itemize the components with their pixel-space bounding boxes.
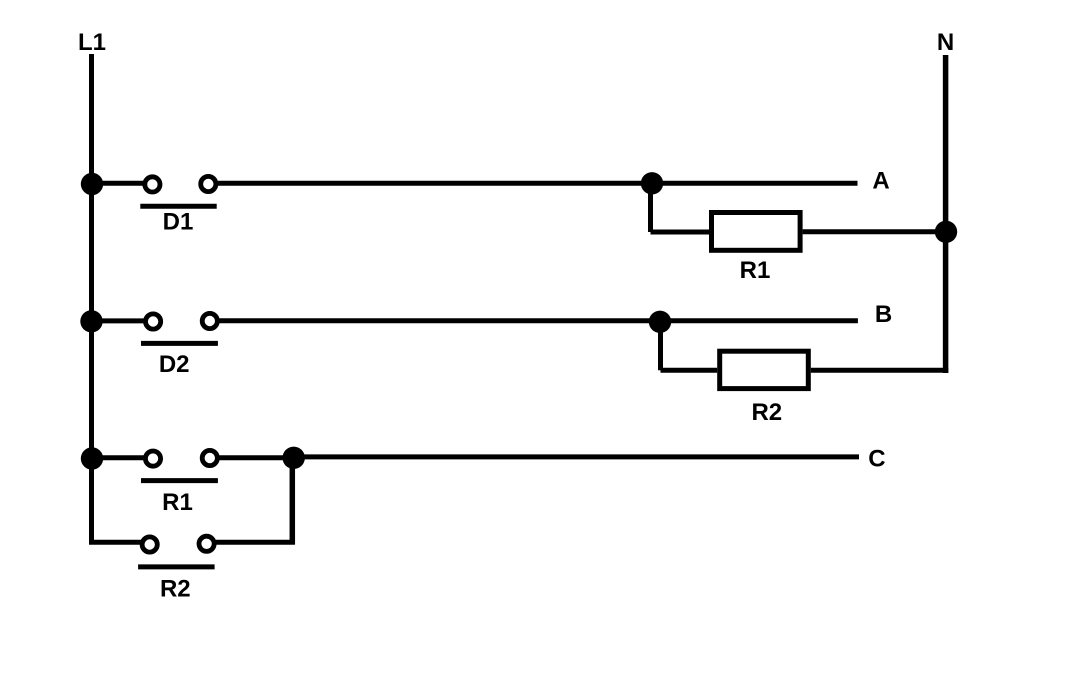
svg-text:C: C (868, 445, 885, 472)
svg-text:R2: R2 (160, 575, 191, 602)
svg-text:R1: R1 (740, 257, 771, 284)
svg-text:B: B (875, 301, 892, 328)
svg-text:A: A (872, 167, 889, 194)
svg-text:R1: R1 (162, 489, 193, 516)
svg-text:N: N (937, 29, 954, 56)
svg-text:L1: L1 (78, 29, 106, 56)
svg-text:R2: R2 (751, 399, 782, 426)
svg-text:D2: D2 (159, 351, 190, 378)
svg-text:D1: D1 (163, 209, 194, 236)
